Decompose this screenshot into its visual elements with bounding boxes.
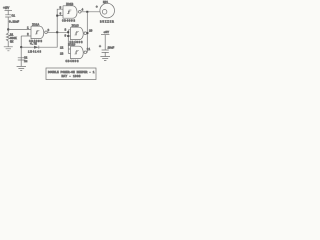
wire feedback from node B: [21, 46, 30, 48]
svg-text:CD4093: CD4093: [66, 60, 79, 63]
node +9V (left supply terminal): [3, 7, 12, 11]
wire +9V to C3: [104, 35, 106, 50]
svg-text:4: 4: [82, 8, 84, 11]
svg-text:8: 8: [65, 29, 67, 32]
op-amp gate IC1B (schmitt NAND, buffer to buzzer): [62, 3, 84, 22]
wire feedback to output node: [31, 32, 58, 47]
wire stubs to IC1D inputs: [68, 49, 70, 53]
op-amp gate IC1C (schmitt NAND): [70, 25, 93, 44]
junction dot on input bus 2: [67, 35, 69, 37]
svg-text:2: 2: [27, 33, 29, 36]
wire node B vertical: [20, 36, 22, 66]
svg-text:1u: 1u: [24, 60, 28, 63]
svg-text:BUZZER: BUZZER: [100, 20, 114, 23]
capacitor C1 (series, 0.22uF): [5, 14, 19, 23]
wire bus to gate IC1C/IC1D inputs vertical: [67, 30, 69, 54]
wire R1 to ground: [7, 41, 9, 47]
svg-text:10uF: 10uF: [108, 47, 115, 50]
svg-text:MAY - 1998: MAY - 1998: [62, 75, 81, 78]
op-amp gate IC1D (schmitt NAND): [66, 44, 91, 63]
svg-text:4.7M: 4.7M: [30, 43, 37, 46]
ground (right): [100, 57, 110, 61]
junction dot on output bus top: [86, 11, 88, 13]
wire IC1B output to buzzer: [81, 11, 100, 13]
svg-text:11: 11: [87, 48, 91, 51]
node C junction dot (feedback tap): [56, 31, 58, 33]
svg-text:9: 9: [65, 34, 67, 37]
svg-text:1N4148: 1N4148: [28, 51, 41, 54]
svg-text:6: 6: [60, 13, 62, 16]
junction dot at IC1B pin 6: [56, 15, 58, 17]
svg-text:+: +: [96, 6, 98, 10]
ground (left): [4, 47, 13, 51]
svg-text:+9V: +9V: [104, 31, 110, 34]
op-amp gate IC1A (schmitt NAND): [29, 23, 50, 43]
svg-text:10: 10: [89, 30, 93, 33]
resistor R1 680K: [6, 33, 17, 43]
wire IC1D output up to bus: [86, 51, 89, 53]
wire node A to gate IC1A input pin 1: [8, 29, 31, 31]
wire gate IC1A input pin 2 from node B: [21, 35, 31, 37]
svg-text:0.22uF: 0.22uF: [9, 21, 19, 24]
svg-text:13: 13: [60, 53, 64, 56]
node +9V (right supply terminal): [101, 31, 109, 35]
wire stubs to IC1C inputs: [68, 30, 70, 36]
svg-text:CD4093: CD4093: [29, 40, 42, 43]
svg-text:5%: 5%: [10, 40, 14, 43]
capacitor C3 10uF (polarized): [99, 45, 115, 52]
output bus wire (paralleled outputs): [86, 12, 88, 53]
svg-text:CD4093: CD4093: [62, 19, 75, 22]
node A junction dot: [7, 28, 9, 30]
svg-text:C1: C1: [12, 14, 16, 17]
svg-text:DOUBLE POWER-ON BEEPER - 1: DOUBLE POWER-ON BEEPER - 1: [48, 71, 95, 74]
svg-text:+: +: [99, 45, 101, 49]
junction dot on output bus mid: [86, 32, 88, 34]
wire up to gate IC1B inputs: [57, 9, 63, 32]
svg-text:12: 12: [60, 47, 64, 50]
diode D1 1N4148 (feedback): [28, 43, 41, 54]
svg-text:1: 1: [27, 26, 29, 29]
wire C3 to ground: [104, 52, 106, 56]
svg-text:3: 3: [48, 29, 50, 32]
wire IC1A output to bus: [47, 31, 68, 33]
ground (under C2): [17, 66, 26, 70]
title block: [46, 68, 96, 80]
buzzer BZ1: [96, 1, 115, 24]
wire from +9V terminal down to C1: [7, 11, 9, 15]
capacitor C2 1uF: [18, 57, 28, 63]
junction dot on input bus: [67, 31, 69, 33]
node B junction dot: [20, 46, 22, 48]
wire C1 to node A: [7, 17, 9, 33]
